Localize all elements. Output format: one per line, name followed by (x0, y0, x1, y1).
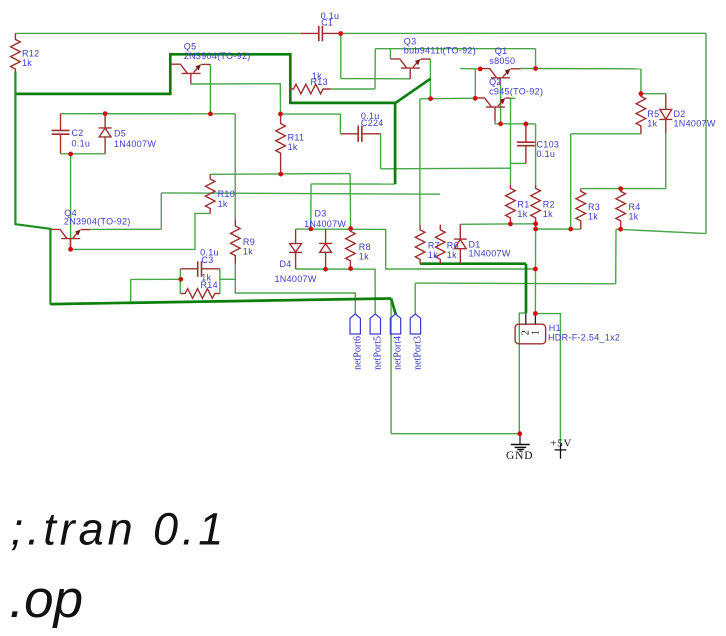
node Q5 emitter bottom (208, 112, 213, 117)
netPort4 port symbol (390, 314, 400, 334)
svg-text:R6: R6 (447, 240, 459, 250)
wire long horizontal to netPort3 (415, 282, 616, 285)
wire thick bus Q5 left vertical (169, 54, 172, 95)
wire Q2 emitter overshoot stub (511, 97, 516, 99)
resistor R13 (290, 84, 330, 94)
netPort3 port symbol (410, 314, 420, 334)
svg-text:R14: R14 (201, 280, 218, 290)
svg-text:R8: R8 (359, 242, 371, 252)
svg-text:2N3904(TO-92): 2N3904(TO-92) (64, 217, 131, 227)
svg-text:bub9411l(TO-92): bub9411l(TO-92) (404, 45, 476, 55)
wire node to Q2 base rail (420, 97, 475, 100)
wire C3 R14 right node to R9 column (220, 278, 235, 280)
wire D2 bottom drop (665, 134, 667, 189)
wire H1 pin2 jog to GND (519, 313, 525, 434)
svg-text:R11: R11 (288, 132, 305, 142)
svg-text:;.tran 0.1: ;.tran 0.1 (11, 504, 228, 555)
wire Q4 emitter riser (160, 193, 162, 229)
svg-text:HDR-F-2.54_1x2: HDR-F-2.54_1x2 (548, 333, 620, 343)
netPort6 port symbol (350, 314, 360, 334)
wire R11 node to C224 riser (280, 114, 340, 134)
svg-text:1: 1 (531, 330, 542, 335)
wire R2 top column (535, 124, 537, 185)
wire drop to R5 node (640, 69, 642, 94)
transistor Q3 (390, 59, 430, 79)
wire D3 D4 top rail to R2 drop (296, 229, 536, 269)
svg-text:R2: R2 (543, 199, 555, 209)
wire R10 wire drop column (349, 174, 352, 229)
node Q1 right (533, 66, 538, 71)
wire Q3 emitter drop (429, 59, 431, 99)
capacitor C2 (60, 114, 62, 154)
wire thick bus mid horizontal (289, 102, 395, 105)
wire R5 bottom horizontal (571, 133, 641, 135)
svg-text:1k: 1k (517, 209, 527, 219)
node R8 bottom (348, 266, 353, 271)
ground (511, 434, 530, 452)
node C1 right (338, 31, 343, 36)
svg-text:.op: .op (9, 570, 83, 629)
wire thick bus down to D3 rail (394, 102, 397, 185)
wire thick bus Q5 right vertical (289, 53, 292, 103)
node R4 bottom (618, 227, 623, 232)
node R11 top (278, 112, 283, 117)
node C3 R14 left (178, 277, 183, 282)
wire R13 right horizontal (331, 88, 375, 90)
wire Q1 base column (500, 84, 502, 124)
wire R5 bottom drop (570, 134, 572, 229)
wire GND riser to thick bus (390, 299, 392, 434)
node D3 top (308, 227, 313, 232)
wire sloped from R4 bottom to right edge (616, 229, 706, 233)
wire C103 bottom stub (511, 162, 526, 164)
svg-text:netPort4: netPort4 (393, 336, 404, 370)
svg-text:R12: R12 (22, 49, 39, 59)
wire R5 node to D2 (641, 93, 666, 95)
diode D4 (289, 229, 302, 269)
wire R3 R4 top rail (581, 188, 666, 190)
svg-text:1k: 1k (428, 250, 438, 260)
svg-text:R4: R4 (629, 202, 641, 212)
wire Q4 base column from C2 D5 (70, 154, 72, 249)
netPort5 port symbol (370, 314, 380, 334)
wire Q5 base rail (191, 84, 281, 114)
node C2 D5 bottom (68, 152, 73, 157)
power flag +5V (555, 444, 567, 459)
wire Q1 to Q2 vertical (474, 69, 476, 99)
svg-text:netPort6: netPort6 (352, 336, 363, 370)
wire C2 D5 top rail (61, 113, 236, 115)
wire R2 R3 bottom rail (536, 228, 581, 230)
diode D5 (99, 114, 112, 154)
wire Q2 emitter to R1 column (510, 98, 512, 185)
wire top rail from C1 to top-right corner (341, 32, 706, 34)
svg-text:GND: GND (506, 450, 533, 462)
node Q2 left (473, 96, 478, 101)
svg-text:1k: 1k (447, 250, 457, 260)
wire Q1 left stub (460, 68, 480, 70)
wire C3 R14 left drop to thick bus (130, 279, 132, 303)
resistor R1 (506, 185, 516, 224)
svg-text:C224: C224 (361, 118, 384, 128)
wire D3 node to thick end (311, 183, 395, 185)
resistor R6 (435, 225, 445, 264)
resistor R3 (576, 189, 586, 230)
node R8 top (348, 226, 353, 231)
svg-text:s8050: s8050 (489, 56, 515, 66)
resistor R7 (415, 225, 425, 264)
wire C3 R14 left node horizontal (131, 278, 181, 280)
node C103 top (524, 122, 529, 127)
wire thick ground bus bottom horizontal (420, 262, 526, 265)
node H1 pin1 (533, 311, 538, 316)
wire C1 node down to Q3 base rail (340, 33, 342, 78)
svg-text:1k: 1k (288, 142, 298, 152)
wire thick netPort4 stub (391, 299, 396, 315)
wire D3 D4 top column (310, 184, 312, 229)
resistor R14 (180, 289, 219, 299)
svg-text:1k: 1k (647, 118, 657, 128)
capacitor C3 (181, 268, 220, 270)
svg-text:Q2: Q2 (489, 77, 502, 87)
transistor Q4 (51, 229, 90, 249)
capacitor C224 (341, 133, 381, 135)
node R3 bottom rail (568, 227, 573, 232)
node Q3 emitter (428, 96, 433, 101)
transistor Q5 (171, 64, 210, 83)
wire upper rail drop to Q1 (535, 49, 537, 69)
diode D1 (454, 224, 467, 263)
node Q1 left (478, 67, 483, 72)
node Q1 base bottom (498, 121, 503, 126)
resistor R9 (231, 219, 241, 263)
wire C3 R14 box right side (219, 269, 221, 294)
svg-text:0.1u: 0.1u (72, 139, 91, 149)
resistor R8 (346, 229, 356, 269)
node D5 top (103, 111, 108, 116)
wire top rail from R12 to C1 (15, 32, 300, 34)
node R1 bottom (508, 222, 513, 227)
wire R10 top to drop (210, 173, 350, 176)
svg-text:R10: R10 (218, 189, 235, 199)
transistor Q2 (475, 98, 510, 122)
svg-text:D5: D5 (114, 129, 126, 139)
capacitor C103 (525, 124, 527, 163)
wire thick bus left horizontal (15, 93, 170, 96)
svg-text:1k: 1k (629, 212, 639, 222)
node R4 top (618, 186, 623, 191)
wire thick bus Q3 diagonal (395, 79, 430, 104)
wire C2 D5 bottom rail (61, 153, 106, 155)
wire R9 bottom to netPort6 (235, 264, 355, 315)
capacitor C1 (300, 32, 340, 34)
node R5 top (639, 91, 644, 96)
wire Q3 base rail (341, 78, 411, 80)
node GND (517, 431, 522, 436)
wire thick bus Q5 top (169, 53, 290, 56)
wire C224 right drop (380, 134, 382, 169)
connector H1 (515, 313, 546, 343)
svg-text:D3: D3 (315, 209, 327, 219)
node D3 bottom (323, 267, 328, 272)
wire R9 column (234, 114, 236, 220)
wire vertical below R4 node (615, 229, 617, 284)
svg-text:netPort5: netPort5 (373, 336, 384, 370)
svg-text:1k: 1k (588, 212, 598, 222)
svg-text:1N4007W: 1N4007W (114, 139, 156, 149)
svg-text:0.1u: 0.1u (537, 149, 556, 159)
svg-text:D4: D4 (280, 259, 292, 269)
svg-text:Q1: Q1 (495, 46, 508, 56)
node R2 bottom (533, 221, 538, 226)
svg-text:1k: 1k (543, 209, 553, 219)
resistor R4 (616, 189, 626, 230)
wire Q4 base node to R10 riser (71, 213, 211, 249)
svg-text:c945(TO-92): c945(TO-92) (489, 87, 543, 97)
svg-text:1k: 1k (243, 246, 253, 256)
wire R2 bottom to H1 pin1 column (534, 224, 536, 314)
svg-text:R9: R9 (243, 237, 255, 247)
node R2 rail (533, 227, 538, 232)
wire netPort3 stub (414, 283, 416, 314)
svg-text:1k: 1k (218, 199, 228, 209)
wire Q5 emitter column (209, 64, 211, 114)
wire thick ground bus drop to H1 pin2 (525, 264, 528, 314)
node R11 bottom (278, 172, 283, 177)
wire Q1 emitter to R5 column (521, 68, 641, 70)
wire C3 R14 box left side (179, 269, 181, 294)
wire D1 R1 R2 bottom rail (460, 223, 535, 226)
wire R13 right riser (374, 49, 376, 89)
svg-text:R1: R1 (517, 199, 529, 209)
node R2 drop rail (533, 267, 538, 272)
resistor R12 (11, 33, 21, 71)
svg-text:2N3904(TO-92): 2N3904(TO-92) (184, 51, 251, 61)
node Q4 base (68, 247, 73, 252)
wire right edge vertical (705, 33, 707, 233)
svg-text:1k: 1k (359, 252, 369, 262)
svg-text:C3: C3 (201, 255, 213, 265)
svg-text:+5V: +5V (550, 438, 572, 450)
resistor R11 (276, 114, 286, 174)
wire GND horizontal (391, 433, 519, 435)
svg-text:netPort3: netPort3 (413, 336, 424, 370)
wire H1 pin1 to plus5V column (536, 314, 560, 444)
svg-text:C2: C2 (72, 128, 84, 138)
resistor R5 (636, 94, 646, 134)
diode D2 (659, 94, 672, 134)
wire Q4 emitter horizontal (90, 228, 161, 230)
svg-text:R7: R7 (428, 240, 440, 250)
svg-text:R13: R13 (311, 77, 328, 87)
wire upper rail Q3/Q1 (375, 48, 535, 50)
wire Q1 Q2 base node rail (495, 122, 536, 124)
svg-text:1N4007W: 1N4007W (304, 219, 346, 229)
resistor R2 (531, 185, 541, 224)
wire C224 to R1 column (381, 167, 511, 170)
svg-text:1N4007W: 1N4007W (469, 248, 511, 258)
wire D3 D4 bottom rail to netPort5 (296, 269, 376, 314)
svg-text:R3: R3 (588, 202, 600, 212)
svg-text:1N4007W: 1N4007W (674, 118, 716, 128)
svg-text:1k: 1k (22, 58, 32, 68)
diode D3 (319, 229, 332, 269)
svg-text:1N4007W: 1N4007W (275, 274, 317, 284)
wire R7 column (419, 99, 421, 225)
wire thick bottom diagonal bus (50, 299, 391, 305)
wire left rail below R12 (15, 72, 50, 305)
resistor R10 (205, 174, 215, 213)
transistor Q1 (480, 69, 520, 85)
wire long mid rail to R6 (161, 193, 440, 194)
wire Q3 collector lead-in (389, 49, 391, 59)
svg-text:C1: C1 (321, 17, 333, 27)
